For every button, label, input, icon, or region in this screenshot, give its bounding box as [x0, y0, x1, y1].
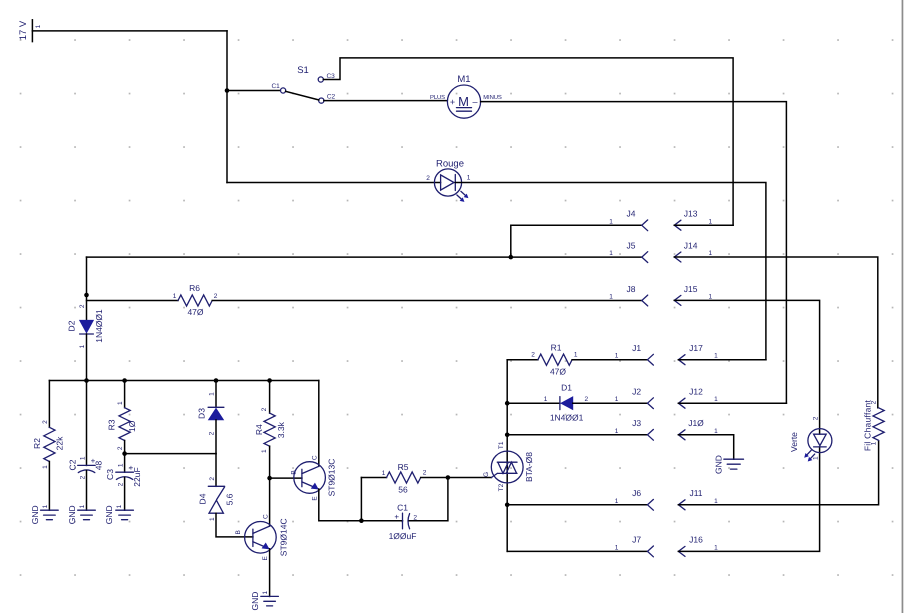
- diode D1 1N4001: [560, 397, 573, 410]
- resistor R3 10: [107, 401, 137, 450]
- svg-text:J14: J14: [684, 241, 698, 251]
- svg-text:56: 56: [398, 485, 408, 495]
- wire bus to R3: [124, 381, 126, 408]
- svg-text:J7: J7: [632, 535, 641, 545]
- svg-text:Verte: Verte: [789, 432, 799, 452]
- svg-text:R4: R4: [254, 424, 264, 435]
- svg-text:2: 2: [209, 477, 216, 481]
- svg-text:1N4ØØ1: 1N4ØØ1: [94, 309, 104, 343]
- svg-text:GND: GND: [250, 592, 260, 611]
- svg-text:J8: J8: [627, 284, 636, 294]
- node junction at switch branch: [225, 88, 230, 93]
- svg-text:1: 1: [79, 504, 86, 508]
- ground under R2: [41, 510, 59, 520]
- svg-text:1ØØuF: 1ØØuF: [389, 531, 417, 541]
- wire R3 to C3: [124, 441, 126, 473]
- svg-text:2: 2: [117, 446, 124, 450]
- svg-text:2: 2: [42, 420, 49, 424]
- svg-text:J12: J12: [689, 386, 703, 396]
- wire gate to triac: [448, 477, 492, 479]
- connector J17: [678, 343, 718, 365]
- wire J4 branch: [511, 225, 642, 257]
- svg-text:47Ø: 47Ø: [187, 307, 203, 317]
- svg-text:J1Ø: J1Ø: [688, 418, 704, 428]
- resistor Fil Chauffant: [863, 399, 884, 451]
- wire bus to R2: [48, 381, 50, 428]
- node bus-D2: [84, 378, 89, 383]
- connector J14: [674, 241, 712, 262]
- wire C3 to ground: [124, 477, 126, 510]
- wire D4 to Q1 base: [216, 513, 253, 537]
- svg-text:GND: GND: [104, 505, 114, 524]
- svg-text:1: 1: [467, 175, 471, 182]
- svg-text:D4: D4: [197, 493, 207, 504]
- node bus-R4: [267, 378, 272, 383]
- wire node down to Q1 collector: [269, 478, 271, 526]
- svg-text:J17: J17: [689, 343, 703, 353]
- svg-text:J2: J2: [632, 386, 641, 396]
- connector J5: [609, 241, 648, 263]
- svg-text:1: 1: [80, 456, 87, 460]
- svg-text:2: 2: [79, 304, 86, 308]
- svg-text:1: 1: [609, 293, 613, 300]
- svg-text:J13: J13: [684, 209, 698, 219]
- svg-text:ST9Ø14C: ST9Ø14C: [278, 518, 288, 556]
- wire J17 row: [678, 359, 766, 361]
- svg-text:17 V: 17 V: [18, 20, 29, 40]
- switch S1 contact C3: [318, 77, 323, 82]
- ground under Q1: [261, 596, 279, 606]
- svg-text:2: 2: [214, 293, 218, 300]
- connector J12: [678, 386, 718, 408]
- transistor Q1 ST9014C: [245, 522, 277, 554]
- svg-text:M1: M1: [457, 74, 470, 85]
- svg-text:1: 1: [262, 591, 269, 595]
- motor M1 circle: [447, 85, 480, 118]
- connector J1: [615, 343, 654, 365]
- ground under C2: [78, 510, 96, 520]
- node rail-J6: [505, 503, 510, 508]
- svg-text:B: B: [235, 530, 242, 534]
- svg-text:2: 2: [423, 469, 427, 476]
- svg-text:M: M: [458, 94, 469, 109]
- node rail-J3: [505, 433, 510, 438]
- connector J2: [615, 386, 654, 408]
- svg-text:D1: D1: [561, 383, 572, 393]
- node bus-D3: [214, 378, 219, 383]
- svg-text:J6: J6: [632, 488, 641, 498]
- LED Rouge triangle: [441, 175, 454, 190]
- wire main bus: [49, 380, 318, 382]
- wire R6 to J8: [212, 300, 642, 302]
- wire R6 left: [87, 300, 179, 302]
- svg-text:GND: GND: [714, 455, 724, 474]
- svg-text:1: 1: [79, 344, 86, 348]
- svg-text:1: 1: [615, 498, 619, 505]
- svg-text:C2: C2: [67, 459, 77, 470]
- svg-text:1: 1: [42, 504, 49, 508]
- svg-text:1: 1: [615, 428, 619, 435]
- wire R1 left: [507, 359, 538, 361]
- svg-text:1: 1: [708, 250, 712, 257]
- connector J3: [615, 418, 654, 440]
- wire R5 left: [361, 477, 386, 479]
- wire to switch C1: [227, 90, 280, 92]
- wire C1 right to node: [409, 478, 448, 521]
- wire J16 row to Verte: [678, 447, 819, 552]
- svg-text:22uF: 22uF: [132, 467, 142, 486]
- wire to Rouge LED: [227, 182, 441, 184]
- wire junction to D4: [215, 454, 217, 487]
- wire C2 to ground: [86, 471, 88, 511]
- ground at J10: [724, 459, 744, 469]
- node right R5/C1: [446, 475, 451, 480]
- LED Verte circle: [808, 429, 832, 453]
- svg-text:D2: D2: [66, 320, 76, 331]
- connector J16: [678, 535, 718, 557]
- svg-text:22k: 22k: [55, 436, 65, 450]
- svg-text:1: 1: [118, 463, 125, 467]
- wire motor MINUS to right rail: [481, 102, 787, 404]
- svg-text:J1: J1: [632, 343, 641, 353]
- svg-text:1Ø: 1Ø: [127, 420, 137, 432]
- svg-text:+: +: [450, 97, 455, 107]
- svg-text:E: E: [312, 496, 319, 501]
- wire J11 row to Fil Chauffant: [678, 441, 878, 505]
- svg-text:2: 2: [261, 407, 268, 411]
- resistor R5 56: [382, 462, 427, 495]
- svg-text:1: 1: [544, 396, 548, 403]
- wire vertical down to switch/LED branch: [226, 31, 228, 183]
- wire R1 to J1: [572, 359, 647, 361]
- switch S1 contact C2: [319, 98, 324, 103]
- node left R5/C1: [359, 518, 364, 523]
- svg-text:1: 1: [615, 544, 619, 551]
- svg-text:1: 1: [708, 218, 712, 225]
- svg-text:2: 2: [118, 482, 125, 486]
- svg-text:1: 1: [173, 293, 177, 300]
- svg-text:C2: C2: [327, 94, 336, 101]
- node junction R3-D4 wire: [122, 451, 127, 456]
- svg-text:1: 1: [812, 456, 819, 460]
- resistor R4 3.3k: [254, 407, 286, 453]
- svg-text:–: –: [472, 97, 477, 107]
- connector J10: [678, 418, 718, 440]
- svg-text:GND: GND: [30, 505, 40, 524]
- LED Rouge cathode bar: [454, 175, 456, 191]
- svg-text:1: 1: [609, 218, 613, 225]
- svg-text:ST9Ø13C: ST9Ø13C: [327, 459, 337, 497]
- resistor R2 22k: [32, 420, 65, 469]
- svg-text:1: 1: [714, 353, 718, 360]
- svg-text:+: +: [91, 456, 96, 465]
- wire vertical J5 to bus: [86, 257, 88, 320]
- wire R2 to ground: [48, 462, 50, 511]
- svg-text:G: G: [483, 472, 490, 477]
- svg-text:1: 1: [708, 293, 712, 300]
- svg-text:J4: J4: [627, 209, 636, 219]
- svg-text:T1: T1: [498, 441, 505, 449]
- wire D1 left: [507, 402, 560, 404]
- wire D1 to J2: [573, 402, 648, 404]
- svg-text:1: 1: [615, 353, 619, 360]
- connector J11: [678, 488, 718, 510]
- svg-text:1: 1: [117, 401, 124, 405]
- LED Rouge circle: [434, 169, 461, 196]
- svg-text:2: 2: [812, 416, 819, 420]
- wire J6 row: [507, 504, 647, 506]
- wire junction to D3/D4 column: [125, 453, 216, 455]
- wire triac rail vertical: [506, 360, 508, 552]
- connector J6: [615, 488, 654, 510]
- wire D3 to junction: [215, 420, 217, 454]
- node junction at R6 row: [84, 293, 89, 298]
- svg-text:C1: C1: [397, 502, 408, 512]
- wire C1 left: [361, 520, 402, 522]
- wire J13 row (from top rail): [674, 224, 733, 226]
- wire 17V to corner: [32, 30, 227, 32]
- node R4/Q1C/Q2B: [267, 476, 272, 481]
- svg-text:5.6: 5.6: [224, 493, 234, 505]
- wire J5 row: [87, 256, 642, 258]
- svg-text:C3: C3: [105, 469, 115, 480]
- svg-text:B: B: [291, 470, 298, 474]
- wire Q2 emitter down to R5/C1 net: [319, 489, 362, 521]
- svg-text:+: +: [394, 512, 399, 521]
- connector J15: [674, 284, 712, 305]
- svg-text:+: +: [129, 463, 134, 472]
- ground under C3: [116, 510, 134, 520]
- svg-text:1: 1: [116, 504, 123, 508]
- motor M1 DC bars: [457, 107, 472, 109]
- svg-text:1N4ØØ1: 1N4ØØ1: [550, 412, 584, 422]
- svg-text:1: 1: [382, 470, 386, 477]
- diode D2 1N4001: [80, 320, 94, 334]
- switch S1 contact C1: [281, 88, 286, 93]
- wire J15 row to Verte rail: [674, 300, 819, 434]
- wire Q1 emitter to ground: [269, 549, 271, 597]
- svg-text:1: 1: [574, 352, 578, 359]
- svg-text:MINUS: MINUS: [483, 94, 502, 101]
- svg-text:2: 2: [209, 431, 216, 435]
- wire node to Q2 base: [270, 477, 302, 479]
- wire bus to R4: [269, 381, 271, 414]
- svg-text:T2: T2: [498, 483, 505, 491]
- svg-text:1: 1: [35, 24, 42, 28]
- svg-text:GND: GND: [67, 505, 77, 524]
- svg-text:1: 1: [615, 396, 619, 403]
- connector J7: [615, 535, 654, 557]
- svg-text:1: 1: [609, 250, 613, 257]
- switch S1 blade: [286, 91, 319, 100]
- wire J3 row: [507, 434, 647, 436]
- capacitor C3 22uF: [116, 472, 134, 479]
- svg-text:1: 1: [42, 465, 49, 469]
- wire R4 to node: [269, 446, 271, 478]
- svg-text:R2: R2: [32, 438, 42, 449]
- svg-text:R5: R5: [398, 462, 409, 472]
- capacitor C2: [78, 465, 96, 472]
- svg-text:1: 1: [871, 441, 878, 445]
- svg-text:C1: C1: [271, 83, 280, 90]
- wire J7 row: [507, 550, 647, 552]
- LED Rouge light arrows: [457, 191, 468, 201]
- wire C3 up and across top: [323, 58, 733, 225]
- svg-text:R6: R6: [189, 283, 200, 293]
- LED Verte triangle: [814, 434, 827, 445]
- svg-text:1: 1: [714, 544, 718, 551]
- wire J10 to ground: [678, 435, 733, 459]
- svg-text:1: 1: [714, 498, 718, 505]
- svg-text:2: 2: [584, 396, 588, 403]
- svg-text:D3: D3: [197, 408, 207, 419]
- resistor R6: [173, 283, 218, 317]
- transistor Q2 ST9013C: [294, 462, 326, 494]
- zener D4 5.6: [208, 486, 224, 513]
- wire bus to C2: [86, 381, 88, 466]
- wire bus down to Q2 collector: [318, 381, 320, 467]
- svg-text:1: 1: [714, 428, 718, 435]
- svg-text:R1: R1: [551, 343, 562, 353]
- wire J14 row to Fil Chauffant rail: [674, 257, 878, 408]
- svg-text:J3: J3: [632, 418, 641, 428]
- wire J12 row: [678, 402, 786, 404]
- svg-text:2: 2: [80, 475, 87, 479]
- node bus-R3: [122, 378, 127, 383]
- svg-text:3.3k: 3.3k: [276, 421, 286, 438]
- svg-text:J5: J5: [627, 241, 636, 251]
- svg-text:BTA-Ø8: BTA-Ø8: [524, 452, 534, 482]
- connector 17 V supply, pin bar: [31, 20, 33, 42]
- wire R5 right to node: [421, 477, 448, 479]
- svg-text:C: C: [311, 455, 318, 460]
- svg-text:J15: J15: [684, 284, 698, 294]
- svg-text:1: 1: [261, 449, 268, 453]
- svg-text:S1: S1: [297, 65, 309, 76]
- svg-text:2: 2: [531, 352, 535, 359]
- connector J13: [674, 209, 712, 231]
- svg-text:2: 2: [871, 400, 878, 404]
- svg-text:PLUS: PLUS: [430, 94, 445, 101]
- svg-text:J16: J16: [689, 535, 703, 545]
- svg-text:C: C: [263, 514, 270, 519]
- capacitor C1 100uF: [403, 513, 410, 529]
- svg-text:R3: R3: [107, 419, 117, 430]
- triac U1 BTA-08: [491, 451, 523, 483]
- svg-text:Rouge: Rouge: [436, 158, 464, 169]
- vertical wire left node R5/C1: [360, 478, 362, 521]
- svg-text:2: 2: [426, 175, 430, 182]
- LED Verte light arrows: [805, 450, 815, 461]
- svg-text:1: 1: [209, 392, 216, 396]
- svg-text:J11: J11: [689, 488, 702, 498]
- wire bus to D3: [215, 381, 217, 408]
- resistor R1 470: [531, 343, 578, 377]
- node rail-D1: [505, 401, 510, 406]
- svg-text:1: 1: [714, 396, 718, 403]
- wire C2 to motor: [324, 100, 447, 102]
- diode D3: [208, 407, 224, 420]
- node junction J4 branch: [509, 255, 514, 260]
- svg-text:E: E: [262, 555, 269, 560]
- wire D2 to bus: [86, 334, 88, 381]
- connector J4: [609, 209, 648, 231]
- svg-text:47Ø: 47Ø: [550, 366, 566, 376]
- svg-text:1: 1: [209, 517, 216, 521]
- wire Rouge to J17 rail: [455, 183, 766, 360]
- connector J8: [609, 284, 648, 306]
- LED Verte cathode bar: [814, 446, 827, 448]
